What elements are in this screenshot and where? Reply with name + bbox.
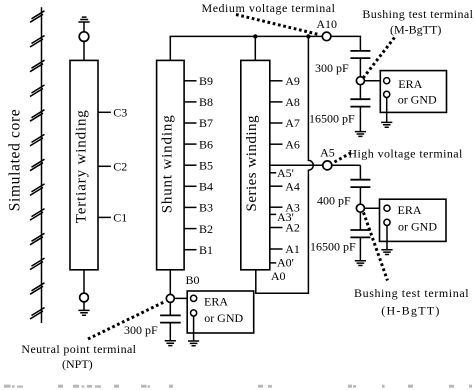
tap B5 <box>184 164 196 166</box>
tap A4 <box>270 185 283 187</box>
svg-text:B6: B6 <box>199 137 213 151</box>
wire: A0 return (down right side, hops over A5 wire) <box>256 36 314 293</box>
svg-text:A7: A7 <box>285 116 300 130</box>
svg-text:B3: B3 <box>199 201 213 215</box>
ground (M branch) <box>355 132 366 137</box>
svg-text:A9: A9 <box>285 74 300 88</box>
wire shunt bottom to NPT node <box>169 270 171 295</box>
ground (box3) <box>188 341 199 346</box>
wire node to ERA box 1 <box>364 80 383 82</box>
tap B4 <box>184 185 196 187</box>
wire ground to top terminal <box>83 22 85 32</box>
terminal circle (tertiary top) <box>79 32 89 42</box>
svg-text:B9: B9 <box>199 74 213 88</box>
terminal circle 1 (box3) <box>191 295 197 301</box>
tap A6 <box>270 143 283 145</box>
dotted pointer (medium voltage terminal) <box>236 15 320 35</box>
wire cap to ground <box>169 323 171 341</box>
terminal A5 <box>323 161 332 170</box>
capacitor 16500 pF (M branch) <box>350 99 370 106</box>
junction (series riser / top bus) <box>253 34 257 38</box>
svg-text:(H-BgTT): (H-BgTT) <box>381 303 439 317</box>
svg-text:Tertiary winding: Tertiary winding <box>74 110 90 224</box>
ground (inverted, top of tertiary) <box>78 17 89 22</box>
tap A1 <box>270 248 283 250</box>
wire: series winding top riser <box>254 36 256 60</box>
wire node to ERA box 2 <box>364 207 384 209</box>
wire A5 tap (long, from series winding to A5 terminal and cap) <box>270 165 361 179</box>
svg-text:ERA: ERA <box>398 77 422 91</box>
svg-text:B7: B7 <box>199 116 213 130</box>
shunt winding <box>157 60 185 269</box>
svg-text:16500 pF: 16500 pF <box>309 111 355 125</box>
terminal A10 <box>322 32 331 41</box>
terminal circle 1 (box2) <box>384 205 390 211</box>
node H-BgTT <box>356 204 364 212</box>
tap A7 <box>270 122 283 124</box>
tap A3' <box>270 213 276 215</box>
svg-text:or GND: or GND <box>398 220 437 234</box>
dotted pointer (H-BgTT) <box>364 213 388 281</box>
tap A8 <box>270 101 283 103</box>
tap B9 <box>184 80 196 82</box>
wire box2 terminal 2 to ground <box>386 226 388 250</box>
core hatch marks <box>30 11 45 319</box>
svg-text:(M-BgTT): (M-BgTT) <box>390 22 441 36</box>
wire cap to ground <box>359 107 361 132</box>
svg-text:Simulated core: Simulated core <box>6 109 23 211</box>
wire terminal to ground <box>83 302 85 311</box>
tap A5' <box>270 172 276 174</box>
terminal circle 1 (box1) <box>384 78 390 84</box>
svg-text:(NPT): (NPT) <box>62 357 93 371</box>
capacitor 300 pF (M branch) <box>350 51 370 58</box>
series winding <box>241 60 270 269</box>
svg-text:Series winding: Series winding <box>244 115 260 212</box>
svg-text:B1: B1 <box>199 243 213 257</box>
terminal circle (tertiary bottom) <box>80 293 89 302</box>
svg-text:16500 pF: 16500 pF <box>310 240 356 254</box>
dotted pointer (NPT) <box>88 302 165 340</box>
svg-text:Medium voltage terminal: Medium voltage terminal <box>202 1 336 15</box>
wire cap to H-BgTT node <box>359 187 361 204</box>
ERA box 3 <box>187 291 254 333</box>
svg-text:A0: A0 <box>271 269 286 283</box>
ground (H branch) <box>355 261 366 266</box>
svg-text:B2: B2 <box>199 222 213 236</box>
svg-text:300 pF: 300 pF <box>315 61 349 75</box>
wire cap to M-BgTT node <box>359 58 361 77</box>
wire cap to ground <box>359 237 361 260</box>
caption sliver (figure caption "Figure 1: Single-line diagram ..." cut off at page edge) <box>4 385 472 388</box>
dotted pointer (M-BgTT) <box>364 38 395 78</box>
terminal circle 2 (box3) <box>191 310 197 316</box>
svg-text:A2: A2 <box>285 221 300 235</box>
tap B1 <box>184 249 196 251</box>
terminal circle 2 (box1) <box>384 91 390 97</box>
svg-text:300 pF: 300 pF <box>124 323 158 337</box>
svg-text:A5': A5' <box>277 166 294 180</box>
ERA box 1 <box>380 71 446 113</box>
tap A0' <box>270 262 276 264</box>
capacitor 300 pF (NPT) <box>160 315 181 322</box>
svg-text:C2: C2 <box>113 160 127 174</box>
svg-text:A1: A1 <box>285 242 300 256</box>
svg-text:Bushing test terminal: Bushing test terminal <box>362 7 473 21</box>
tap B3 <box>184 206 196 208</box>
svg-text:A5: A5 <box>320 146 335 160</box>
svg-text:A6: A6 <box>285 137 300 151</box>
simulated core (vertical line) <box>41 7 43 323</box>
tap B8 <box>184 101 196 103</box>
tap B2 <box>184 228 196 230</box>
wire node to 16500 pF cap <box>359 212 361 230</box>
svg-text:A10: A10 <box>316 17 337 31</box>
svg-text:A8: A8 <box>285 95 300 109</box>
tap B7 <box>184 122 196 124</box>
node NPT <box>166 294 174 302</box>
tap A2 <box>270 227 283 229</box>
capacitor 16500 pF (H branch) <box>350 230 370 237</box>
ERA box 2 <box>380 199 447 241</box>
svg-text:ERA: ERA <box>398 203 422 217</box>
ground (box1) <box>381 122 392 127</box>
svg-text:Bushing test terminal: Bushing test terminal <box>354 286 469 300</box>
svg-text:B4: B4 <box>199 180 213 194</box>
wire box3 terminal 2 to ground <box>193 316 195 341</box>
svg-text:A0': A0' <box>277 256 294 270</box>
ground (box2) <box>381 250 392 255</box>
svg-text:Neutral point terminal: Neutral point terminal <box>21 342 136 356</box>
terminal circle 2 (box2) <box>384 219 390 225</box>
svg-text:A4: A4 <box>285 179 300 193</box>
svg-text:B5: B5 <box>199 158 213 172</box>
dotted pointer (high voltage terminal) <box>335 153 352 162</box>
wire terminal to tertiary winding top <box>83 41 85 60</box>
wire node to 300 pF cap <box>169 302 171 315</box>
svg-text:C3: C3 <box>113 106 127 120</box>
tap A9 <box>270 80 283 82</box>
svg-text:High voltage terminal: High voltage terminal <box>348 147 463 161</box>
svg-text:ERA: ERA <box>204 294 228 308</box>
wire: top bus from shunt riser to right corner <box>170 36 360 60</box>
tap C1 <box>98 216 111 218</box>
ground (tertiary bottom) <box>78 310 89 315</box>
wire box1 terminal 2 to ground <box>386 98 388 123</box>
ground (NPT) <box>165 341 176 346</box>
tap C3 <box>98 111 111 113</box>
tertiary winding <box>70 60 98 269</box>
svg-text:C1: C1 <box>113 211 127 225</box>
tap A3 <box>270 206 283 208</box>
svg-text:Shunt winding: Shunt winding <box>160 115 176 214</box>
svg-text:400 pF: 400 pF <box>317 194 351 208</box>
wire node to ERA box 3 <box>174 297 190 299</box>
tap C2 <box>98 165 111 167</box>
svg-text:or GND: or GND <box>204 311 243 325</box>
svg-text:B0: B0 <box>186 273 200 287</box>
svg-text:B8: B8 <box>199 95 213 109</box>
svg-text:or GND: or GND <box>398 93 437 107</box>
node M-BgTT <box>356 77 364 85</box>
wire tertiary bottom to terminal <box>83 270 85 293</box>
tap B6 <box>184 143 196 145</box>
capacitor 400 pF (H branch) <box>350 180 370 187</box>
wire node to 16500 pF cap <box>359 85 361 100</box>
junction (A0 return / top bus) <box>306 34 310 38</box>
